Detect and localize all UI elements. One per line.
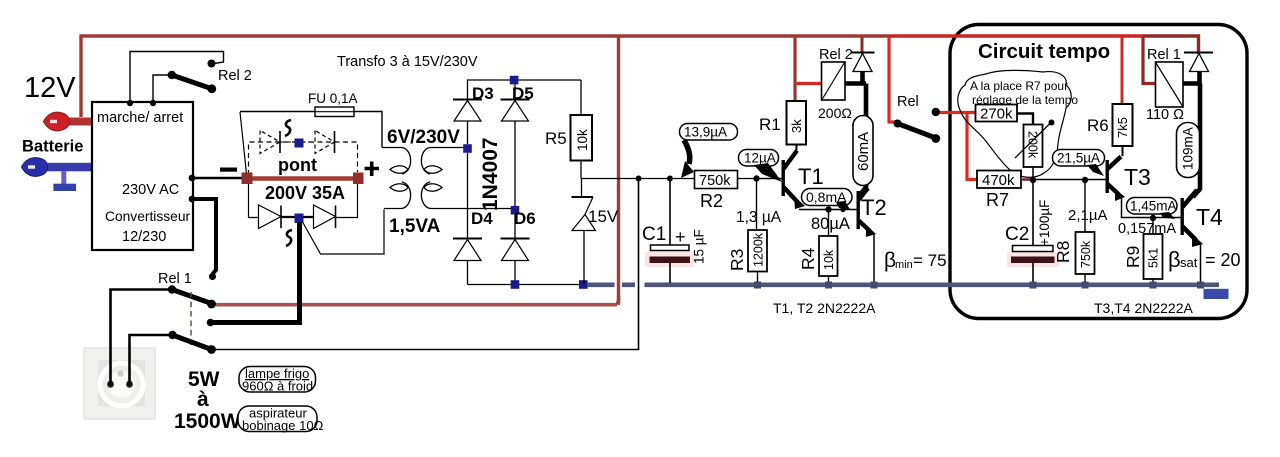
wire node to T3 base <box>1033 179 1106 181</box>
node rail T2 square <box>871 282 878 289</box>
svg-text:1N4007: 1N4007 <box>479 137 502 211</box>
wire 270k to pot <box>1017 114 1033 125</box>
svg-text:1500W: 1500W <box>174 410 241 433</box>
transistor T3 base bar <box>1106 160 1109 193</box>
battery red arrow <box>66 118 92 126</box>
wire 470k to node (dark red) <box>1021 178 1033 181</box>
switch Rel contact dot <box>932 108 940 116</box>
node top rail (blue square) <box>510 76 519 85</box>
resistor R9 <box>1144 234 1163 279</box>
svg-text:1,45mA: 1,45mA <box>1130 199 1177 214</box>
capacitor C2 plate glow <box>1007 252 1059 267</box>
wire red drop to Rel1 coil <box>1143 37 1156 84</box>
wire node to R4 <box>828 210 830 237</box>
wire diode to coil and T2 collector <box>845 72 866 197</box>
svg-text:R5: R5 <box>545 129 567 148</box>
relay coil Rel1 <box>1156 62 1184 107</box>
node rail R4 square <box>825 282 832 289</box>
capacitor C2 top plate <box>1013 246 1054 252</box>
potentiometer arrow <box>1015 123 1051 159</box>
circuit tempo box <box>950 25 1247 319</box>
node bridge plus (red square) <box>353 173 364 185</box>
diode freewheel Rel2 <box>852 52 875 54</box>
capacitor C1 plate glow <box>645 252 694 267</box>
svg-text:7k5: 7k5 <box>1115 117 1130 138</box>
wire Rel1 lower pivot to socket <box>130 335 173 383</box>
svg-text:60mA: 60mA <box>855 132 872 171</box>
wire R9 to rail <box>1152 279 1154 283</box>
svg-text:bobinage 10Ω: bobinage 10Ω <box>242 418 324 433</box>
svg-text:Convertisseur: Convertisseur <box>105 209 191 224</box>
wire rel2 switch upper <box>130 52 224 103</box>
wire Rel1 upper pivot to socket <box>111 290 173 384</box>
svg-text:à: à <box>197 388 209 411</box>
converter box <box>92 102 193 250</box>
svg-text:10k: 10k <box>822 249 836 270</box>
svg-text:T2: T2 <box>861 195 887 220</box>
wire red drop to R1 <box>793 37 796 101</box>
wire T4 emitter to rail <box>1200 244 1202 283</box>
node emitter row dot <box>825 206 831 212</box>
transformer T1 secondary winding <box>421 148 443 209</box>
svg-text:3k: 3k <box>789 119 804 133</box>
node converter top left <box>127 100 133 106</box>
node T3 base row dot <box>1082 177 1088 183</box>
oval label 109mA <box>1177 123 1200 178</box>
wire node to T1 base <box>757 178 782 180</box>
current arrow from 13,9uA <box>684 140 690 164</box>
transistor T4 collector <box>1183 190 1198 207</box>
node rail R8 square <box>1082 282 1089 289</box>
diode D6 <box>501 238 530 240</box>
svg-text:12/230: 12/230 <box>122 229 166 245</box>
ground rail end bar <box>1204 289 1229 299</box>
wire top rail to R5 <box>580 80 582 115</box>
svg-text:A la place R7 pour: A la place R7 pour <box>970 79 1068 93</box>
socket photo <box>83 347 156 420</box>
transistor T4 emitter <box>1183 227 1197 241</box>
wire secondary top to D3D4 node <box>443 145 468 148</box>
svg-text:D6: D6 <box>514 209 536 228</box>
switch Rel1 upper lever <box>172 290 212 304</box>
ground rail blue segments <box>587 282 1219 287</box>
switch Rel lever <box>898 124 936 139</box>
svg-text:12µA: 12µA <box>744 151 776 166</box>
wire D3 to node <box>467 121 469 144</box>
svg-text:110 Ω: 110 Ω <box>1146 107 1184 123</box>
transistor T2 collector <box>859 188 869 200</box>
svg-text:R8: R8 <box>1053 241 1073 263</box>
resistor 470k <box>977 171 1021 189</box>
node rail R3 square <box>754 282 761 289</box>
transistor T3 emitter <box>1108 184 1120 195</box>
node bridge AC top (blue square) <box>295 139 304 148</box>
node converter out upper <box>189 175 196 182</box>
svg-text:470k: 470k <box>982 172 1015 189</box>
current arrow from 0,8mA <box>836 201 850 210</box>
wire red drop to diode D-rel2 <box>861 37 864 52</box>
wire AC bottom to transformer primary return <box>302 210 384 255</box>
oval label 12uA <box>739 150 779 167</box>
svg-text:Circuit tempo: Circuit tempo <box>978 40 1110 63</box>
transistor T4 base bar <box>1181 198 1184 235</box>
svg-text:1200k: 1200k <box>752 232 766 267</box>
squiggle AC bottom <box>286 230 292 246</box>
resistor 270k <box>976 105 1018 122</box>
node zener row dot 1 <box>636 176 642 182</box>
capacitor C1 top plate <box>651 245 690 251</box>
wire T2 emitter to rail <box>873 234 875 283</box>
svg-text:pont: pont <box>278 155 317 175</box>
potentiometer 200k <box>1024 125 1043 168</box>
svg-text:21,5µA: 21,5µA <box>1057 151 1100 166</box>
wire node to D6 <box>514 215 516 239</box>
svg-text:Rel 2: Rel 2 <box>819 47 853 63</box>
svg-text:200Ω: 200Ω <box>818 105 852 121</box>
svg-text:1,5VA: 1,5VA <box>389 216 441 237</box>
wire diode to coil and T4 collector <box>1183 72 1200 198</box>
bridge red bar <box>247 176 357 180</box>
wire node down to C2 <box>1032 180 1034 246</box>
transistor T3 collector <box>1108 157 1122 170</box>
diode bridge bottom-left (solid) <box>259 205 282 229</box>
current arrow from 12uA <box>754 163 782 182</box>
oval label lampe frigo <box>239 367 316 393</box>
oval label 1,45mA <box>1127 198 1178 215</box>
battery ground T symbol <box>61 171 66 184</box>
resistor R2 <box>695 171 738 189</box>
wire pot to node <box>1032 167 1034 180</box>
diode bridge top-right (dashed) <box>315 131 335 154</box>
transistor T1 collector <box>784 151 798 170</box>
capacitor C1 bottom plate <box>650 257 691 264</box>
wire rectifier bottom rail <box>468 284 586 286</box>
transistor T1 base bar <box>782 160 785 196</box>
diode D3 <box>453 99 482 101</box>
wire thick from AC bottom down to Rel1 <box>213 222 300 323</box>
svg-text:C1: C1 <box>642 224 666 245</box>
label plus <box>365 162 380 177</box>
switch Rel2 contact dot <box>208 60 216 68</box>
svg-text:R3: R3 <box>727 249 747 271</box>
wire red drop to R6 <box>1121 37 1124 104</box>
wire long down and left to Rel1 throw <box>213 179 639 350</box>
svg-text:marche/ arret: marche/ arret <box>97 110 183 126</box>
svg-text:sat: sat <box>1180 255 1198 270</box>
svg-text:R6: R6 <box>1087 116 1109 135</box>
node converter top right <box>150 100 156 106</box>
wire R3 to rail <box>757 272 759 284</box>
svg-text:T1: T1 <box>798 164 824 189</box>
svg-text:T4: T4 <box>1196 204 1223 230</box>
switch Rel1 lower pivot dot <box>168 331 176 339</box>
battery blue arrow <box>45 163 92 172</box>
wire R1 to T1 collector <box>796 145 798 151</box>
wire red from Rel contact to 270k <box>938 111 975 114</box>
wire R5 to node <box>580 161 582 179</box>
svg-text:R2: R2 <box>700 191 723 211</box>
wire R4 to rail <box>828 276 830 283</box>
switch Rel1 link dashed <box>190 292 192 346</box>
resistor R8 <box>1076 232 1095 274</box>
capacitor C1 wire top <box>669 179 671 246</box>
svg-text:T1, T2 2N2222A: T1, T2 2N2222A <box>773 300 876 316</box>
wire fuse left <box>240 111 315 113</box>
diode bridge top-left (dashed) <box>260 131 280 154</box>
node bridge minus (red square) <box>242 173 253 185</box>
node T4 base row dot <box>1150 215 1156 221</box>
wire C2 to rail <box>1032 263 1034 283</box>
wire D6 to bottom rail <box>514 261 516 285</box>
svg-text:13,9µA: 13,9µA <box>684 125 727 140</box>
node bridge AC bottom (blue square) <box>295 214 304 224</box>
svg-text:min: min <box>895 259 913 271</box>
wire node to R8 <box>1084 180 1086 232</box>
svg-text:200V 35A: 200V 35A <box>265 183 345 203</box>
wire fuse right to transformer <box>354 112 382 148</box>
wire +12V top rail middle segment <box>889 34 1143 37</box>
svg-text:+100µF: +100µF <box>1037 200 1052 246</box>
switch Rel1 middle throw dot <box>207 319 215 327</box>
wire red down to 470k <box>967 113 977 180</box>
wire fuse left diagonal to minus node <box>240 112 247 174</box>
svg-text:15 µF: 15 µF <box>692 229 707 264</box>
node R7 dot <box>1030 177 1036 183</box>
svg-text:R7: R7 <box>986 190 1009 210</box>
wire red to Rel2 coil <box>795 82 822 85</box>
svg-text:R1: R1 <box>759 115 781 134</box>
label minus <box>220 168 237 172</box>
resistor R4 <box>819 236 838 276</box>
wire T3 emitter to T4 base <box>1122 196 1181 218</box>
node bottom rail blue square 1 <box>511 280 520 289</box>
resistor R3 <box>748 230 767 272</box>
svg-text:10k: 10k <box>575 129 590 151</box>
switch Rel2 pivot dot <box>168 71 176 79</box>
switch Rel1 upper throw dot <box>209 273 216 280</box>
svg-text:1,3 µA: 1,3 µA <box>736 209 782 226</box>
diode freewheel Rel1 <box>1184 52 1213 54</box>
svg-text:960Ω à froid: 960Ω à froid <box>242 379 313 394</box>
capacitor C2 bottom plate <box>1011 257 1055 264</box>
svg-text:+: + <box>675 227 686 247</box>
wire +12V top rail left segment <box>81 36 889 117</box>
wire red drop to Rel switch lever <box>889 37 896 122</box>
svg-text:FU 0,1A: FU 0,1A <box>308 91 358 106</box>
relay coil Rel2 <box>822 62 846 100</box>
wire red drop to R5/zener node column <box>617 37 620 303</box>
wire secondary bottom to D5D6 node <box>443 208 515 210</box>
diode D5 <box>514 85 516 100</box>
svg-text:C2: C2 <box>1005 224 1029 245</box>
wire C1 to rail <box>669 263 671 283</box>
transistor T1 emitter <box>784 187 799 203</box>
switch Rel1 lower lever <box>173 335 212 350</box>
svg-text:2,1µA: 2,1µA <box>1068 207 1108 224</box>
current arrow from 1,45mA <box>1160 212 1175 219</box>
svg-text:15V: 15V <box>588 207 619 226</box>
svg-text:T3: T3 <box>1124 164 1151 190</box>
transformer T1 primary winding <box>382 148 411 209</box>
svg-text:750k: 750k <box>1079 240 1093 268</box>
wire D5 to node <box>514 121 516 206</box>
wire node row horizontal <box>581 178 757 180</box>
cloud note outline <box>958 70 1071 177</box>
node emitter small dot <box>840 207 845 212</box>
oval label 13,9uA <box>680 124 738 141</box>
oval label aspirateur <box>238 406 317 432</box>
node zener row dot 2 <box>667 176 673 182</box>
fuse FU body <box>315 107 354 117</box>
wire R6 to T3 collector <box>1122 146 1124 156</box>
resistor R5 <box>571 115 593 161</box>
transistor T2 base bar <box>857 191 860 229</box>
svg-text:12V: 12V <box>24 72 76 104</box>
bridge dashed frame top <box>249 142 358 175</box>
oval label 60mA <box>853 116 873 186</box>
transistor T2 emitter <box>859 221 871 232</box>
wire node to R9 <box>1152 218 1154 234</box>
resistor R1 <box>787 101 807 145</box>
svg-text:Rel 1: Rel 1 <box>158 271 192 287</box>
wire node down to R3 <box>756 179 758 231</box>
oval label 21,5uA <box>1053 150 1105 167</box>
svg-text:5k1: 5k1 <box>1147 248 1161 268</box>
diode D4 <box>453 238 482 240</box>
svg-text:R4: R4 <box>798 247 818 270</box>
svg-text:= 75: = 75 <box>913 251 947 270</box>
switch Rel1 upper pivot dot <box>168 285 176 293</box>
node R2 right dot <box>753 175 759 181</box>
switch Rel2 lever <box>172 75 212 89</box>
svg-text:6V/230V: 6V/230V <box>387 127 460 148</box>
zener diode 15V <box>581 179 583 198</box>
squiggle AC top <box>285 120 291 136</box>
svg-text:Rel 1: Rel 1 <box>1147 47 1181 63</box>
resistor R6 <box>1113 104 1133 146</box>
current arrow from 21,5uA <box>1087 164 1104 176</box>
node secondary bottom (blue square) <box>511 206 520 215</box>
svg-text:Batterie: Batterie <box>22 138 83 156</box>
svg-text:Transfo 3 à 15V/230V: Transfo 3 à 15V/230V <box>337 54 478 70</box>
svg-text:230V AC: 230V AC <box>122 182 179 198</box>
wire R8 to rail <box>1084 274 1086 283</box>
switch Rel2 lever end dot <box>207 84 216 93</box>
wire zener to rail <box>583 231 585 285</box>
svg-text:80µA: 80µA <box>811 215 850 233</box>
svg-text:Rel: Rel <box>897 94 919 110</box>
oval label 0,8mA <box>802 189 853 206</box>
node converter out lower <box>189 196 196 203</box>
svg-text:= 20: = 20 <box>1205 250 1241 270</box>
svg-text:R9: R9 <box>1123 246 1143 268</box>
node rail C2 square <box>1030 282 1037 289</box>
socket wire dots <box>108 381 114 387</box>
bridge solid frame bottom <box>249 182 358 218</box>
svg-text:T3,T4 2N2222A: T3,T4 2N2222A <box>1094 300 1193 316</box>
wire dashed mid top <box>280 141 315 143</box>
svg-text:750k: 750k <box>699 173 731 189</box>
wire +12V top rail right segment <box>1143 36 1199 54</box>
node bottom rail blue square 2 <box>579 280 588 289</box>
svg-text:Rel 2: Rel 2 <box>218 68 252 84</box>
node rail R9 square <box>1150 282 1157 289</box>
wire T1 emitter row <box>799 209 857 211</box>
wire node to D4 <box>467 153 469 238</box>
wire D4 to bottom rail <box>467 261 469 285</box>
wire converter to Rel1 contact <box>193 199 216 274</box>
svg-text:β: β <box>1168 247 1181 272</box>
wire rel2 switch lower <box>153 75 170 102</box>
node rail T4 square <box>1197 282 1204 289</box>
diode bridge bottom-right (solid) <box>314 205 336 229</box>
wire rectifier top rail <box>468 80 582 99</box>
wire bridge bottom mid <box>281 216 314 218</box>
wire converter to bridge minus <box>193 177 246 179</box>
svg-text:270k: 270k <box>980 106 1013 123</box>
svg-text:109mA: 109mA <box>1181 127 1196 170</box>
node secondary top (blue square) <box>463 144 472 153</box>
